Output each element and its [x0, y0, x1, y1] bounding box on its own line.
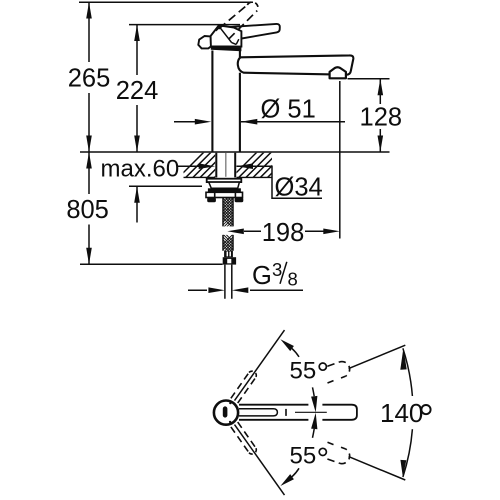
- spout underside extension line (128): [348, 78, 390, 80]
- connection pipe G3/8: [225, 265, 232, 299]
- dimension line 805: [88, 152, 90, 264]
- extension line top of lever (224): [129, 24, 240, 26]
- handle body: [211, 25, 242, 46]
- aerator: [330, 67, 346, 78]
- raised lever (dashed): [219, 2, 258, 39]
- dimension line 128: [379, 79, 381, 152]
- handle slot plan: [223, 406, 228, 417]
- svg-text:3: 3: [272, 259, 282, 280]
- swivel ray lower: [235, 425, 285, 496]
- lever handle (solid): [225, 24, 280, 39]
- rubber seal black band: [208, 188, 241, 192]
- stop ray upper: [349, 345, 406, 368]
- hose end reference line (805): [80, 263, 223, 265]
- swivel ray upper: [235, 330, 285, 401]
- mounting nut: [206, 192, 243, 197]
- dashed stop band lower 20: [327, 442, 349, 463]
- dimension line 224: [136, 25, 138, 152]
- handle facet lines: [219, 26, 239, 44]
- svg-text:55: 55: [290, 443, 317, 470]
- dimension line 198: [244, 230, 324, 232]
- svg-text:198: 198: [262, 219, 305, 247]
- countertop top line: [80, 151, 390, 153]
- svg-text:8: 8: [288, 269, 298, 290]
- max.60 lower reference line: [129, 185, 202, 187]
- braided hose upper section: [218, 185, 238, 264]
- countertop hatch left: [176, 150, 242, 180]
- temperature knob on handle: [198, 36, 211, 48]
- dimension line G 3/8: [188, 289, 303, 291]
- 55 upper dimension arc and arrows: [280, 339, 317, 412]
- spout joint tick: [285, 409, 287, 416]
- cone washer: [209, 182, 240, 188]
- circle dots: [229, 402, 231, 404]
- svg-text:Ø 51: Ø 51: [261, 95, 316, 123]
- 55 lower dimension arc and arrows: [280, 413, 317, 486]
- nut feet: [207, 198, 216, 203]
- svg-text:140: 140: [380, 398, 423, 428]
- svg-text:G: G: [252, 262, 272, 290]
- dimension line diameter 51: [174, 121, 345, 123]
- mounting shank through counter: [216, 153, 235, 178]
- stop ray lower: [349, 457, 406, 480]
- svg-text:128: 128: [360, 104, 403, 132]
- dashed swivel band upper 55: [231, 371, 256, 403]
- aerator axis extension line (198): [339, 81, 341, 239]
- spout plan inner slot: [239, 409, 277, 416]
- svg-text:max.60: max.60: [101, 156, 180, 183]
- mounting flange plate: [207, 179, 242, 182]
- faucet centerline in mounting hole: [225, 153, 227, 177]
- svg-text:224: 224: [116, 77, 159, 105]
- dimension line diameter 34 with leader: [178, 166, 322, 198]
- spout centerline: [295, 411, 327, 413]
- dashed stop band upper 20: [327, 362, 349, 383]
- 140 arc arrows: [400, 348, 406, 370]
- hose crimp collar: [224, 251, 233, 258]
- faucet body: [212, 51, 240, 153]
- svg-text:55: 55: [290, 357, 317, 384]
- svg-text:Ø34: Ø34: [275, 174, 323, 202]
- spout plan bar: [239, 405, 357, 420]
- hose hex fitting: [223, 257, 236, 264]
- dimension arrow max.60: [136, 186, 138, 222]
- dashed swivel band lower 55: [231, 422, 256, 454]
- countertop hatch right: [229, 150, 302, 180]
- 140 swivel arc: [403, 348, 413, 396]
- svg-text:805: 805: [66, 196, 109, 224]
- svg-text:265: 265: [68, 65, 111, 93]
- body circle plan: [214, 401, 238, 425]
- handle joint black band: [211, 46, 242, 51]
- dimension line 265: [88, 2, 90, 152]
- extension line top of raised lever (265): [79, 1, 253, 3]
- spout: [238, 55, 354, 74]
